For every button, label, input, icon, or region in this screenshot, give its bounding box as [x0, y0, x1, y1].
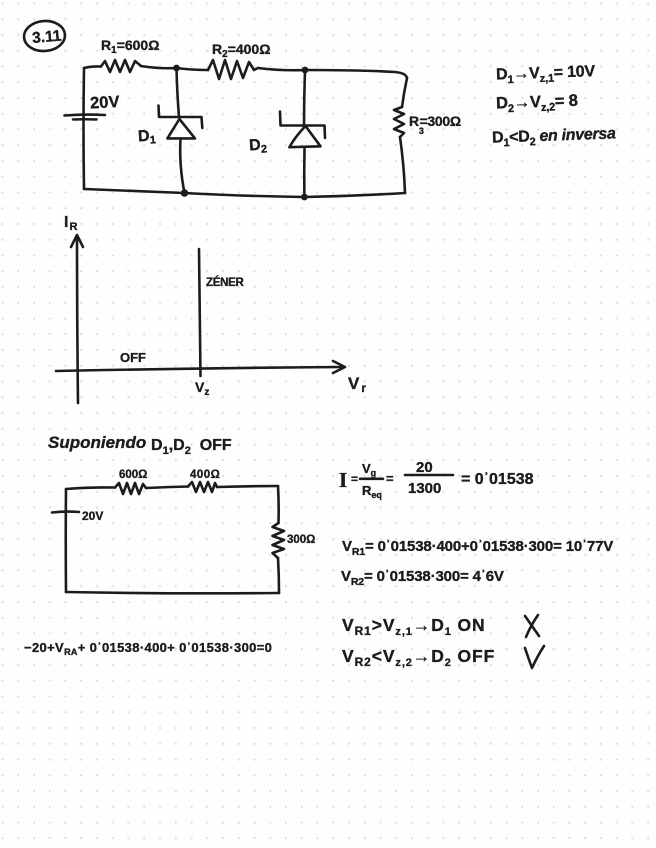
svg-text:20V: 20V [82, 509, 103, 523]
zener diode D2 [280, 70, 325, 197]
wire R2 to node B [258, 68, 305, 70]
circuit 2 resistor 600 [115, 483, 146, 494]
graph vertical axis [77, 238, 78, 403]
graph horizontal axis arrowhead [333, 361, 345, 373]
svg-text:I: I [339, 468, 347, 492]
resistor R2 [208, 60, 258, 79]
svg-text:=: = [386, 471, 394, 486]
svg-text:600Ω: 600Ω [119, 469, 147, 481]
left wire with source [82, 68, 85, 189]
battery long plate [65, 113, 106, 117]
graph horizontal axis [56, 367, 342, 371]
wire node A to R2 [176, 68, 208, 70]
svg-text:1300: 1300 [408, 480, 441, 497]
circuit 2 bottom wire [66, 592, 279, 593]
circuit 2 left wire [64, 489, 67, 592]
zener breakdown line [199, 249, 201, 376]
circuit 2 right wire lower [278, 558, 279, 593]
node C junction dot [181, 189, 189, 197]
circuit 2 resistor 400 [188, 482, 217, 492]
wire top-left to R1 [84, 66, 101, 68]
svg-text:= 0ʾ01538: = 0ʾ01538 [461, 471, 534, 488]
circuit 2 top wire left segment [66, 487, 115, 489]
svg-text:20V: 20V [90, 93, 120, 113]
resistor R1 [101, 60, 141, 72]
wire R1 to node A [141, 66, 176, 68]
circuit 2 resistor 300 [273, 523, 285, 558]
svg-text:Suponiendo: Suponiendo [48, 433, 146, 452]
graph vertical axis arrowhead [71, 235, 83, 247]
svg-text:300Ω: 300Ω [287, 534, 315, 546]
circuit 2 battery plate [52, 510, 79, 513]
zener diode D1 [159, 68, 203, 193]
node B junction dot [302, 67, 309, 74]
circuit 2 wire between resistors [146, 487, 188, 489]
circuit 2 right wire upper [277, 486, 280, 523]
problem number 3.11 circled [23, 20, 66, 53]
wire node B to top-right corner [305, 70, 407, 78]
circuit 2 top wire right segment [217, 486, 278, 487]
resistor R3 vertical [394, 107, 404, 137]
svg-text:OFF: OFF [120, 350, 146, 365]
svg-text:ZÉNER: ZÉNER [206, 276, 244, 289]
bottom wire [84, 189, 405, 197]
X mark [525, 615, 539, 637]
svg-text:=: = [351, 472, 358, 486]
wire R3 to bottom-right corner [400, 137, 405, 193]
wire right side down to R3 [402, 78, 407, 107]
equation I = Vg/Req = 20/1300 = 0'01538 [339, 459, 534, 500]
svg-text:−20+VRA+ 0ʾ01538·400+ 0ʾ01538·: −20+VRA+ 0ʾ01538·400+ 0ʾ01538·300=0 [24, 640, 272, 657]
svg-text:400Ω: 400Ω [190, 469, 220, 481]
node D junction dot [301, 194, 308, 201]
check mark [525, 646, 544, 668]
svg-text:20: 20 [416, 459, 433, 476]
battery short plate [73, 118, 97, 121]
node A junction dot [173, 65, 180, 72]
svg-text:3.11: 3.11 [31, 27, 62, 47]
